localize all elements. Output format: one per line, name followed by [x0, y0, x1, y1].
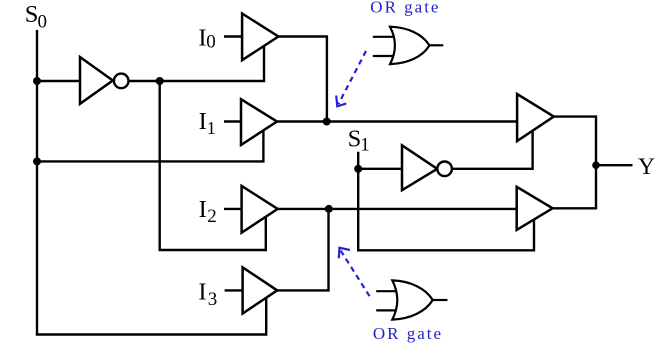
wire inverter output to I0 enable — [129, 46, 265, 81]
wire I3 input — [225, 289, 243, 291]
buffer U3 (input I0) — [242, 14, 278, 61]
svg-text:1: 1 — [360, 134, 370, 155]
wire inverter2 output to upper right buffer enable — [452, 131, 533, 169]
wire I1 output bus to upper right buffer — [277, 120, 517, 122]
wire S1 to inverter2 input — [358, 168, 402, 170]
label I1 — [199, 108, 216, 138]
wire I2 output bus to lower right buffer — [278, 208, 517, 210]
svg-text:0: 0 — [206, 32, 216, 53]
wire I1 input — [224, 120, 241, 122]
svg-text:Y: Y — [638, 154, 655, 180]
node A junction (I0/I1 outputs) — [323, 118, 331, 126]
label S1 — [348, 126, 370, 156]
buffer U7 (upper right) — [517, 94, 554, 141]
node Y junction — [592, 161, 600, 169]
inverter U1 (NOT gate on S0) — [80, 57, 129, 104]
svg-text:I: I — [199, 196, 207, 223]
wire S0' down to I2 enable — [160, 81, 266, 250]
wire S0 to I1 enable — [37, 130, 263, 161]
wire to Y — [596, 164, 633, 166]
node S0' junction — [156, 77, 164, 85]
svg-text:1: 1 — [207, 118, 216, 138]
wire I3 output up to node B — [277, 209, 328, 290]
inverter U2 (NOT gate on S1) — [402, 145, 452, 190]
wire S1 vertical down and to lower right buffer enable — [358, 152, 534, 251]
node S0-inverter junction — [33, 77, 41, 85]
svg-text:2: 2 — [207, 206, 217, 227]
svg-text:0: 0 — [38, 12, 48, 33]
wire lower-right buffer output to Y node — [553, 165, 596, 208]
OR gate symbol (bottom) — [376, 280, 447, 319]
label I2 — [199, 196, 217, 227]
OR gate symbol (top) — [373, 27, 444, 64]
buffer U6 (input I3) — [243, 267, 278, 313]
node S0 lower junction — [33, 157, 41, 165]
arrow from top OR gate to node A — [336, 51, 366, 106]
label S0 — [25, 1, 47, 33]
svg-text:OR gate: OR gate — [373, 324, 443, 343]
buffer U5 (input I2) — [242, 186, 278, 233]
wire I0 output down to node A — [278, 37, 327, 122]
arrow from bottom OR gate to node B — [339, 248, 370, 296]
svg-text:OR gate: OR gate — [370, 0, 440, 17]
label I0 — [198, 25, 215, 53]
svg-text:S: S — [25, 1, 39, 28]
wire S0 to inverter input — [37, 80, 80, 82]
svg-text:I: I — [199, 108, 207, 135]
node S1 junction — [354, 165, 362, 173]
svg-text:S: S — [348, 126, 362, 153]
node B junction (I2/I3 outputs) — [325, 205, 333, 213]
wire I2 input — [224, 208, 242, 210]
wire upper-right buffer output to Y node — [554, 117, 596, 166]
buffer U8 (lower right) — [517, 187, 553, 230]
buffer U4 (input I1) — [241, 99, 277, 145]
svg-text:3: 3 — [208, 289, 218, 310]
label I3 — [198, 278, 217, 310]
wire S0 vertical with bottom rail to I3 enable — [37, 30, 266, 335]
wire I0 input — [224, 35, 242, 37]
svg-text:I: I — [198, 278, 206, 305]
